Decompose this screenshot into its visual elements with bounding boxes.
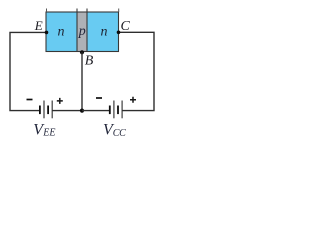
wire B down bbox=[81, 52, 83, 110]
battery VEE: short plate 1 bbox=[39, 106, 41, 115]
svg-text:p: p bbox=[78, 24, 86, 39]
node E dot bbox=[45, 31, 49, 35]
block outline bbox=[46, 12, 119, 52]
p-region left border tick bbox=[76, 9, 78, 52]
transistor p region (base) fill bbox=[77, 12, 87, 52]
junction dot bbox=[80, 109, 84, 113]
battery VCC: long plate 1 bbox=[113, 101, 115, 119]
right corner tick bbox=[118, 9, 120, 13]
VEE plus sign bbox=[57, 98, 63, 104]
battery VCC: short plate 2 bbox=[117, 106, 119, 115]
transistor n region (collector) fill bbox=[87, 12, 119, 52]
VCC plus sign bbox=[130, 97, 136, 103]
p-region right border tick bbox=[86, 9, 88, 52]
wire E to left bbox=[10, 32, 47, 110]
svg-text:CC: CC bbox=[113, 128, 126, 139]
battery VEE: short plate 2 bbox=[47, 106, 49, 115]
battery VEE: long plate 1 bbox=[43, 101, 45, 119]
node C dot bbox=[117, 31, 121, 35]
svg-text:EE: EE bbox=[42, 128, 55, 139]
svg-text:n: n bbox=[101, 25, 108, 40]
svg-text:B: B bbox=[85, 54, 94, 69]
battery VEE: long plate 2 bbox=[51, 101, 53, 119]
svg-text:n: n bbox=[58, 25, 65, 40]
svg-text:E: E bbox=[34, 18, 43, 33]
node B dot bbox=[80, 50, 84, 54]
transistor n region (emitter) fill bbox=[46, 12, 77, 52]
wire junction to battery VCC bbox=[82, 110, 110, 112]
wire battery VCC to right riser bbox=[119, 32, 155, 110]
left corner tick bbox=[46, 9, 48, 13]
battery VCC: short plate 1 bbox=[109, 106, 111, 115]
wire battery VEE to junction bbox=[52, 110, 82, 112]
VCC minus sign bbox=[96, 97, 102, 99]
battery VCC: long plate 2 bbox=[121, 101, 123, 119]
VEE minus sign bbox=[27, 99, 33, 101]
